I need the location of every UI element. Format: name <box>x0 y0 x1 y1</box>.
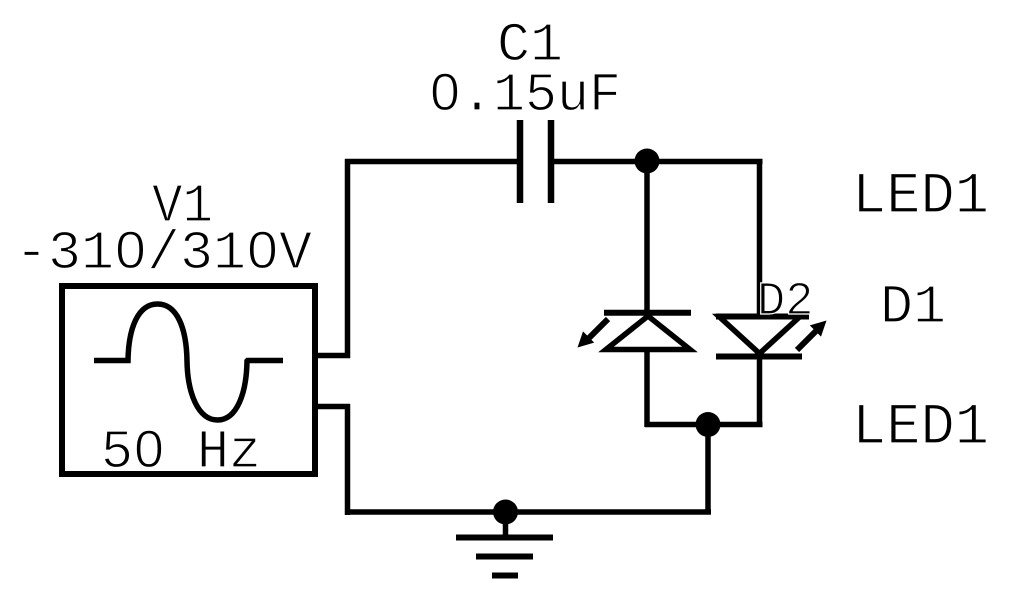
zero dot mask 0.15uF <box>439 83 451 100</box>
capacitor C1 <box>520 120 551 203</box>
wire LED D1 branch vertical upper <box>644 159 650 314</box>
wire LED D2 branch vertical lower <box>757 355 763 427</box>
V1 sine wave <box>94 304 283 420</box>
wire left vertical lower <box>345 404 351 515</box>
wire bottom horizontal <box>345 509 711 515</box>
LED D1 arrow <box>578 319 609 348</box>
wire LED D2 branch vertical upper <box>757 159 763 318</box>
wire top horizontal left of C1 <box>345 159 520 165</box>
wire bottom right vertical <box>705 424 711 514</box>
LED D2 cathode bar <box>716 354 802 360</box>
svg-text:D2: D2 <box>757 276 813 329</box>
LED D1 triangle <box>606 316 690 350</box>
LED D2 triangle <box>719 317 800 354</box>
zero dot mask 50Hz <box>144 440 155 457</box>
wire left vertical upper <box>345 159 351 358</box>
node junction bottom <box>696 412 721 437</box>
svg-text:LED1: LED1 <box>852 396 989 461</box>
voltage source V1 box <box>62 286 315 474</box>
wire lower cross horizontal <box>645 422 763 428</box>
LED D2 arrow <box>797 321 827 351</box>
wire stub upper to V1 <box>315 353 350 359</box>
svg-text:LED1: LED1 <box>852 165 989 230</box>
svg-text:50 Hz: 50 Hz <box>101 421 261 484</box>
zero dot masks -310/310V <box>124 242 137 259</box>
wire top horizontal right of C1 <box>551 159 763 165</box>
wire stub lower to V1 <box>315 404 350 410</box>
wire LED D1 branch vertical lower <box>644 350 650 427</box>
LED D1 cathode bar <box>604 310 691 316</box>
ground <box>456 512 553 576</box>
node junction ground <box>493 500 518 525</box>
svg-text:D1: D1 <box>880 276 946 339</box>
LED D2 anode bar <box>716 314 809 320</box>
svg-text:0.15uF: 0.15uF <box>429 64 621 127</box>
node junction top <box>635 149 660 174</box>
